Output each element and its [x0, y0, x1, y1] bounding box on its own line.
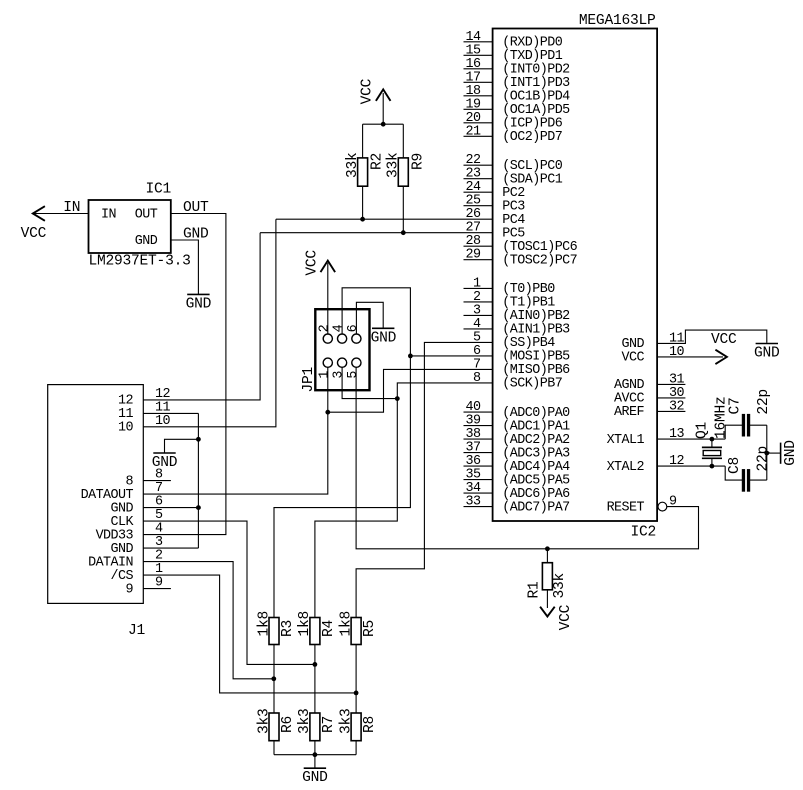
IC2 pin 39 (ADC1)PA1 — [464, 414, 571, 435]
wire C7/C8 right side to ground — [750, 425, 780, 480]
svg-text:(ADC7)PA7: (ADC7)PA7 — [502, 500, 569, 515]
IC2 pin 30 AVCC — [614, 386, 685, 407]
wire JP1 pin5 RESET net to IC2 RESET and R1 — [356, 367, 698, 549]
svg-text:10: 10 — [155, 414, 170, 429]
VCC supply arrow above JP1 — [304, 250, 335, 276]
J1 pin 12 12 — [118, 387, 170, 409]
node R9/PC5 junction — [401, 230, 406, 235]
wire JP1 pin2 to VCC — [327, 263, 329, 334]
svg-text:AREF: AREF — [614, 405, 644, 420]
wire XTAL1 to crystal/C7 — [657, 425, 742, 439]
svg-text:1k8: 1k8 — [338, 611, 354, 637]
IC2 pin 36 (ADC4)PA4 — [464, 454, 571, 475]
IC2 pin 11 GND — [622, 331, 685, 352]
capacitor C7 22p — [728, 389, 773, 436]
svg-text:9: 9 — [155, 576, 163, 591]
svg-text:22p: 22p — [755, 446, 771, 472]
svg-text:XTAL2: XTAL2 — [607, 460, 645, 475]
VCC supply arrow above R2/R9 — [360, 78, 391, 124]
wire IC2 pin10 VCC — [657, 356, 723, 358]
wire /CS net: J1 pin1 to R5 junction — [143, 575, 356, 693]
svg-text:3k3: 3k3 — [256, 708, 272, 734]
node R5//CS junction — [354, 691, 359, 696]
wire R3 bottom lead — [273, 645, 275, 714]
svg-text:6: 6 — [346, 324, 361, 332]
svg-text:(SCK)PB7: (SCK)PB7 — [502, 377, 562, 392]
IC2 pin 32 AREF — [614, 399, 685, 420]
IC2 pin 20 (ICP)PD6 — [464, 111, 563, 132]
svg-text:1k8: 1k8 — [297, 611, 313, 637]
wire SS net: IC2 PB4 to R5 — [356, 342, 493, 617]
svg-text:R6: R6 — [280, 716, 296, 733]
svg-text:XTAL1: XTAL1 — [607, 433, 645, 448]
resistor R3 1k8 — [256, 611, 296, 645]
svg-text:(OC2)PD7: (OC2)PD7 — [502, 130, 562, 145]
IC2 pin 14 (RXD)PD0 — [464, 30, 563, 51]
node R4/CLK junction — [313, 662, 318, 667]
svg-text:33k: 33k — [386, 152, 402, 178]
ground symbol near J1 — [152, 453, 178, 471]
wire DATAIN net: J1 pin2 to R3 junction — [143, 562, 273, 679]
resistor R9 33k — [386, 124, 427, 233]
IC2 pin 21 (OC2)PD7 — [464, 124, 563, 145]
svg-text:9: 9 — [126, 582, 134, 597]
svg-text:OUT: OUT — [183, 200, 209, 216]
J1 pin 4 VDD33 — [96, 522, 163, 544]
J1 pin 9 9 — [126, 576, 171, 598]
svg-text:R5: R5 — [362, 620, 378, 637]
svg-text:10: 10 — [669, 345, 684, 360]
svg-text:5: 5 — [346, 371, 361, 379]
node VCC/R2/R9 junction — [381, 122, 386, 127]
wire XTAL2 to crystal/C8 — [657, 466, 742, 480]
svg-text:13: 13 — [669, 427, 684, 442]
wire R6/R7/R8 bottoms to ground — [274, 741, 356, 769]
svg-text:C7: C7 — [728, 397, 744, 414]
JP1 pin 2 — [317, 324, 332, 343]
JP1 pin 6 — [346, 324, 361, 343]
transistor Q1 crystal 16MHz — [694, 396, 729, 466]
VCC supply arrow (pointing right) — [711, 332, 737, 364]
svg-text:2: 2 — [317, 324, 332, 332]
svg-text:4: 4 — [332, 324, 347, 332]
wire ground tap — [165, 439, 199, 453]
node XTAL2/Q1 junction — [710, 464, 715, 469]
svg-text:OUT: OUT — [135, 207, 158, 222]
svg-text:R1: R1 — [527, 581, 543, 599]
IC2 pin 7 (MISO)PB6 — [473, 357, 570, 378]
svg-text:J1: J1 — [128, 623, 146, 639]
svg-text:33: 33 — [466, 495, 481, 510]
node R2/PC4 junction — [360, 217, 365, 222]
svg-text:3k3: 3k3 — [338, 708, 354, 734]
node R7/ground junction — [313, 752, 318, 757]
IC2 pin 40 (ADC0)PA0 — [464, 400, 571, 421]
ground symbol right of crystal (rotated) — [781, 440, 799, 466]
svg-text:VCC: VCC — [711, 332, 737, 348]
svg-text:32: 32 — [669, 399, 684, 414]
svg-text:IN: IN — [63, 200, 80, 216]
svg-text:21: 21 — [466, 124, 481, 139]
IC2 pin 13 XTAL1 — [607, 427, 685, 448]
IC2 pin 19 (OC1A)PD5 — [464, 97, 571, 118]
J1 pin 8 8 — [126, 468, 171, 490]
IC2 pin 17 (INT1)PD3 — [464, 70, 571, 91]
JP1 pin 1 — [317, 358, 332, 379]
capacitor C8 22p — [727, 446, 771, 491]
svg-text:R2: R2 — [370, 153, 386, 170]
wire CLK net: J1 pin5 to R4 junction — [143, 521, 315, 664]
svg-text:12: 12 — [669, 454, 684, 469]
IC2 pin 27 PC5 — [466, 221, 526, 242]
J1 pin 2 DATAIN — [88, 549, 163, 571]
svg-text:R3: R3 — [280, 620, 296, 637]
svg-text:GND: GND — [135, 234, 158, 249]
svg-text:RESET: RESET — [607, 500, 645, 515]
ground symbol bottom — [302, 768, 328, 786]
resistor R2 33k — [345, 124, 386, 219]
IC2 pin 33 (ADC7)PA7 — [464, 495, 570, 516]
IC2 pin 34 (ADC6)PA6 — [464, 481, 571, 502]
svg-text:R9: R9 — [410, 153, 426, 170]
node GND tap junction — [196, 437, 201, 442]
IC2 pin 6 (MOSI)PB5 — [473, 344, 570, 365]
IC2 pin 10 VCC — [622, 345, 685, 366]
IC2 pin 4 (AIN1)PB3 — [464, 317, 571, 338]
wire IC1 GND pin to ground — [171, 227, 209, 295]
svg-text:LM2937ET-3.3: LM2937ET-3.3 — [89, 254, 191, 270]
IC2 pin 38 (ADC2)PA2 — [464, 427, 571, 448]
svg-text:VCC: VCC — [622, 351, 645, 366]
svg-text:Q1: Q1 — [694, 421, 710, 439]
svg-text:1: 1 — [317, 371, 332, 379]
IC2 pin 1 (T0)PB0 — [464, 276, 556, 297]
node R3/DATAIN junction — [271, 676, 276, 681]
op-amp IC1 LM2937ET-3.3 voltage regulator — [89, 182, 191, 270]
svg-text:GND: GND — [371, 330, 397, 346]
svg-text:8: 8 — [473, 371, 481, 386]
wire IC2 pin11 GND to ground — [657, 330, 767, 343]
node J1 GND pin6 junction — [196, 505, 201, 510]
IC2 pin 5 (SS)PB4 — [473, 330, 555, 351]
svg-text:VCC: VCC — [304, 250, 320, 276]
svg-text:VCC: VCC — [558, 604, 574, 630]
JP1 pin 3 — [332, 358, 347, 379]
IC2 pin 2 (T1)PB1 — [464, 290, 556, 311]
wire JP1 pin1 MISO net to J1 DATAOUT and IC2 PB6 — [143, 367, 492, 494]
svg-text:10: 10 — [118, 421, 133, 436]
IC2 pin 37 (ADC3)PA3 — [464, 441, 571, 462]
wire R5 bottom lead — [355, 645, 357, 714]
node C7/C8/GND junction — [764, 451, 769, 456]
svg-text:(TOSC2)PC7: (TOSC2)PC7 — [502, 254, 577, 269]
wire R2/R9 tops to VCC — [363, 123, 404, 125]
svg-text:33k: 33k — [345, 152, 361, 178]
VCC supply arrow (left, at IC1 input) — [21, 206, 47, 242]
IC2 pin 23 (SDA)PC1 — [464, 167, 563, 188]
svg-text:VCC: VCC — [360, 78, 376, 104]
svg-text:IN: IN — [101, 207, 116, 222]
connector JP1 ISP header body — [301, 309, 370, 392]
JP1 pin 5 — [346, 358, 361, 379]
svg-text:GND: GND — [183, 227, 209, 243]
IC2 pin 15 (TXD)PD1 — [464, 43, 563, 64]
JP1 pin 4 — [332, 324, 347, 343]
J1 pin 10 10 — [118, 414, 170, 436]
ground symbol below IC1 — [186, 294, 212, 312]
wire R4 bottom lead — [314, 645, 316, 714]
svg-text:IC2: IC2 — [630, 525, 656, 541]
node MISO junction at JP1 pin1 lead — [325, 410, 330, 415]
resistor R1 33k — [527, 549, 569, 608]
IC2 pin 29 (TOSC2)PC7 — [464, 248, 578, 269]
svg-text:3: 3 — [332, 371, 347, 379]
IC2 pin 22 (SCL)PC0 — [464, 153, 563, 174]
IC2 pin 24 PC2 — [464, 180, 526, 201]
node RESET/R1 junction — [545, 546, 550, 551]
svg-text:29: 29 — [466, 248, 481, 263]
resistor R7 3k3 — [297, 708, 337, 740]
IC2 pin 8 (SCK)PB7 — [473, 371, 562, 392]
J1 pin 1 /CS — [111, 562, 163, 584]
wire IC1 OUT to J1 pin 4 VDD33 — [143, 200, 226, 535]
svg-text:R7: R7 — [321, 716, 337, 733]
IC2 pin 12 XTAL2 — [607, 454, 685, 475]
IC2 pin 16 (INT0)PD2 — [464, 57, 571, 78]
IC2 pin 28 (TOSC1)PC6 — [464, 234, 578, 255]
svg-text:MEGA163LP: MEGA163LP — [579, 13, 656, 29]
ground symbol right of JP1 — [371, 328, 397, 346]
IC2 pin 25 PC3 — [464, 194, 526, 215]
node SCK junction — [395, 396, 400, 401]
node MOSI junction at PB5 row — [408, 354, 413, 359]
ground symbol top right — [754, 344, 780, 362]
svg-text:GND: GND — [754, 346, 780, 362]
svg-text:GND: GND — [186, 296, 212, 312]
svg-text:GND: GND — [302, 770, 328, 786]
svg-text:VCC: VCC — [21, 226, 47, 242]
svg-text:JP1: JP1 — [301, 366, 317, 392]
IC2 pin 35 (ADC5)PA5 — [464, 468, 571, 489]
VCC supply arrow below R1 (pointing down) — [540, 604, 574, 630]
svg-text:1k8: 1k8 — [256, 611, 272, 637]
J1 pin 3 GND — [111, 535, 163, 557]
svg-text:C8: C8 — [727, 457, 743, 474]
J1 pin 6 GND — [111, 495, 163, 517]
J1 pin 5 CLK — [111, 508, 163, 530]
node XTAL1/Q1 junction — [710, 437, 715, 442]
svg-text:22p: 22p — [756, 389, 772, 415]
J1 pin 11 11 — [118, 400, 170, 422]
wire JP1 pin4 MOSI net to IC2 PB5 and R3 — [274, 288, 493, 618]
svg-text:IC1: IC1 — [146, 182, 172, 198]
resistor R5 1k8 — [338, 611, 378, 645]
resistor R8 3k3 — [338, 708, 378, 740]
wire VCC to IC1 IN — [33, 200, 89, 216]
wire PC5 net: IC2 pin27 to R9 and J1 pin 12 — [143, 233, 492, 400]
resistor R6 3k3 — [256, 708, 296, 740]
J1 pin 7 DATAOUT — [81, 481, 163, 503]
wire JP1 pin3 SCK net to IC2 PB7 and R4 — [315, 367, 493, 618]
IC2 pin 9 RESET (inverting bubble) — [607, 494, 677, 515]
wire JP1 pin6 to ground — [356, 302, 383, 334]
connector J1 body — [48, 385, 146, 639]
IC2 pin 3 (AIN0)PB2 — [464, 303, 571, 324]
svg-text:GND: GND — [783, 440, 799, 466]
wire J1 GND net pins 11/6/3 — [143, 413, 198, 548]
resistor R4 1k8 — [297, 611, 337, 645]
svg-text:33k: 33k — [552, 572, 568, 598]
IC2 pin 18 (OC1B)PD4 — [464, 84, 571, 105]
IC2 pin 31 AGND — [614, 372, 685, 393]
wire PC4 net: IC2 pin26 to R2 and J1 pin 10 — [143, 219, 492, 427]
svg-text:R4: R4 — [321, 619, 337, 637]
op-amp IC2 MEGA163LP body — [493, 13, 657, 541]
svg-text:GND: GND — [152, 455, 178, 471]
svg-text:R8: R8 — [362, 716, 378, 733]
svg-text:3k3: 3k3 — [297, 708, 313, 734]
IC2 pin 26 PC4 — [466, 207, 526, 228]
